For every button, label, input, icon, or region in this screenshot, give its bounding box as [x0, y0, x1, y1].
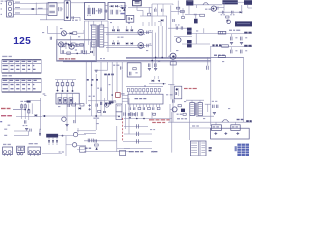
- wire cap bank v: [124, 104, 126, 129]
- label B rail right: [214, 55, 225, 56]
- magamp top wire: [55, 79, 76, 81]
- capacitor C41: [175, 24, 179, 29]
- connector blk1 dark: [222, 0, 237, 4]
- wire bm v1: [116, 126, 118, 152]
- wire right h3: [218, 11, 240, 13]
- wire rm v1: [170, 26, 172, 52]
- wire center h0: [124, 118, 172, 120]
- package TO220 Q12: [28, 143, 41, 156]
- capacitor C31: [221, 11, 225, 16]
- wire right h2: [185, 5, 200, 15]
- base drive box: [126, 15, 134, 22]
- diode DR10 stud: [138, 43, 144, 49]
- capacitor C52b: [240, 50, 247, 54]
- connector blk3 dark: [235, 21, 252, 26]
- wire T1 sec taps: [104, 28, 108, 46]
- label rail br end: [246, 120, 252, 122]
- magamp r4: [71, 80, 74, 92]
- bus rail upper: [126, 56, 244, 58]
- wire filter v1: [35, 3, 37, 15]
- ground s1: [65, 125, 68, 127]
- bus caps group: [148, 63, 157, 70]
- label sprinkle 5: [78, 36, 80, 37]
- inductor between boxes: [104, 10, 108, 13]
- wire down right: [248, 5, 252, 8]
- wire right v long2: [243, 57, 245, 122]
- wire t2 right: [205, 104, 211, 112]
- capacitor C51b: [240, 37, 247, 45]
- diode DR7: [117, 42, 119, 45]
- sense plus3: [236, 132, 239, 135]
- label sprinkle 8: [176, 50, 178, 51]
- diode DR9: [131, 42, 133, 45]
- arrow down 1: [48, 140, 50, 145]
- transformer section box: [84, 21, 108, 52]
- diode pair above IC: [149, 76, 166, 85]
- label out1: [229, 30, 240, 31]
- wire br v2: [121, 62, 123, 70]
- wire drv v2: [56, 26, 58, 45]
- inductor L1: [218, 31, 226, 34]
- wire drv out1: [77, 30, 84, 33]
- connector blk2 dark: [244, 0, 252, 5]
- wire net top mid 3: [152, 3, 173, 5]
- label sprinkle 16: [203, 118, 205, 119]
- label opto red: [184, 88, 197, 89]
- label near t2: [192, 125, 199, 126]
- resistor R21: [148, 7, 151, 15]
- diode D6: [68, 43, 70, 45]
- harness v1: [85, 62, 87, 104]
- dual diode pack D42: [186, 40, 193, 47]
- arrow down 2: [52, 140, 54, 145]
- capacitor C22: [162, 9, 163, 12]
- inductor L2: [222, 45, 229, 47]
- rail +12V double: [106, 32, 152, 34]
- capacitor C8: [111, 10, 113, 15]
- svg-text:125: 125: [13, 36, 31, 47]
- bridge rectifier box: [85, 3, 106, 20]
- main HV rail: [173, 4, 222, 5]
- lamp circle: [62, 117, 66, 121]
- harness beads: [87, 79, 98, 81]
- component Q9 parts: [177, 109, 187, 116]
- IC pin stubs bottom: [130, 104, 160, 107]
- table A row1 text: [3, 65, 35, 66]
- resistor R33: [200, 14, 205, 16]
- wire right top v1: [170, 5, 172, 26]
- wire opto h: [168, 84, 174, 86]
- comparator B: [66, 143, 86, 147]
- resistor R34: [182, 17, 185, 19]
- parts rail2: [147, 43, 151, 47]
- IC pin stubs top: [128, 92, 159, 94]
- parts rail1: [147, 30, 151, 34]
- label sprinkle 11: [166, 94, 168, 95]
- resistor R bleed: [96, 8, 100, 14]
- arrow down bl: [39, 129, 41, 135]
- plus mark a: [88, 104, 91, 107]
- table B header text: [3, 80, 37, 81]
- magamp r2: [61, 80, 64, 92]
- package TO220 Q10: [3, 144, 13, 156]
- resistor Rm1: [98, 110, 101, 112]
- relay box a: [116, 104, 122, 112]
- resistor row above IC: [127, 88, 160, 91]
- capacitor C33: [173, 19, 174, 22]
- ground sym br: [95, 70, 98, 72]
- harness v6: [111, 62, 113, 104]
- heatsink Q2 dark block: [186, 0, 193, 5]
- comparator A: [58, 128, 86, 137]
- parts under HV rail: [197, 5, 218, 10]
- diode DR8: [126, 42, 128, 45]
- wire net mid v: [166, 16, 168, 30]
- table B title: [2, 75, 12, 76]
- wire rail verticals: [152, 26, 166, 68]
- wire rm v2: [195, 33, 197, 44]
- standby opamp U2: [69, 44, 74, 49]
- box bl right: [77, 147, 86, 152]
- wire right top v2: [177, 1, 179, 15]
- rail out2: [210, 46, 252, 48]
- thermistor NTC: [101, 9, 102, 13]
- diode D5: [70, 32, 72, 34]
- wire br h1: [96, 69, 107, 71]
- wire drv h2: [57, 44, 59, 46]
- cluster top wire: [88, 100, 116, 102]
- bus rail upper2: [126, 58, 211, 60]
- sense plus1: [214, 132, 217, 135]
- wire bl v66: [65, 136, 67, 156]
- wire bmc h: [124, 148, 152, 150]
- coil right rail: [218, 55, 225, 57]
- transformer T2 a: [190, 103, 195, 116]
- harness v4: [100, 62, 102, 116]
- capacitor Cbm1: [88, 139, 90, 143]
- common-mode choke T0: [64, 1, 70, 21]
- standby parts c: [62, 50, 70, 54]
- label under q9: [177, 118, 187, 119]
- wire drv out2: [75, 44, 84, 48]
- label sprinkle 4: [60, 28, 62, 29]
- marks bl bottom: [42, 151, 64, 153]
- capacitor C61: [207, 57, 209, 69]
- capacitor C6 bulk: [93, 8, 95, 14]
- magamp box: [56, 93, 79, 104]
- standby caption maroon: [59, 58, 76, 59]
- optocoupler U3: [174, 86, 181, 99]
- label out2 end dark: [244, 45, 251, 47]
- label bm navy: [85, 148, 92, 149]
- harness marks mid: [89, 96, 95, 97]
- transformer T2 core: [196, 103, 197, 116]
- wire br v3: [216, 122, 236, 125]
- wire center h2: [124, 133, 152, 135]
- wire center h3: [123, 141, 152, 143]
- table A header text: [3, 61, 37, 62]
- left margin mark: [0, 121, 10, 126]
- wire pson1: [13, 109, 25, 111]
- resistor Rs2: [80, 104, 84, 106]
- wire opto v: [170, 84, 172, 99]
- standby extra parts: [62, 43, 84, 54]
- wire right v long1: [210, 47, 212, 126]
- label bl a: [4, 129, 7, 130]
- magamp r3: [66, 80, 69, 92]
- label sprinkle 6: [100, 58, 105, 59]
- wire bm corner: [117, 149, 130, 156]
- harness text dark: [105, 103, 111, 105]
- wire right v3: [182, 8, 184, 16]
- wire q8 down: [172, 59, 174, 122]
- coil bump rail br: [222, 120, 229, 122]
- transformer T1 primary: [92, 25, 97, 47]
- IC bottom parts row: [129, 107, 160, 110]
- table B row2 text: [3, 88, 36, 89]
- wire net top mid 1: [128, 6, 152, 8]
- IC lower parts 2: [128, 113, 155, 119]
- arrow down 3: [56, 140, 58, 145]
- wire pson2: [16, 115, 42, 117]
- wire N line: [13, 7, 48, 9]
- package TO92 Q11: [17, 146, 25, 155]
- capacitor bl: [30, 129, 31, 132]
- transistor Q6 circle: [59, 42, 64, 47]
- standby parts a: [76, 43, 83, 46]
- table A title: [2, 56, 12, 57]
- resistor R91: [178, 105, 181, 107]
- wire h right mid: [186, 56, 211, 58]
- wire from heatsink: [137, 6, 143, 11]
- transistor Q4 circle: [211, 6, 216, 11]
- capacitor Cm1: [96, 104, 97, 107]
- transistor Q5 circle: [61, 31, 66, 36]
- wire t2 h2: [196, 115, 214, 117]
- fuse F1: [32, 8, 35, 10]
- component bm cluster: [95, 139, 99, 149]
- sense box: [211, 128, 250, 139]
- label rail1: [117, 37, 123, 38]
- coil bump HV rail: [203, 3, 209, 5]
- label sprinkle 19: [42, 32, 44, 33]
- wire net mid h: [140, 15, 167, 17]
- heatsink Q1 dark block: [133, 0, 142, 5]
- wire net top mid 2: [151, 4, 153, 26]
- resistor R32: [180, 11, 184, 13]
- diode D31: [240, 5, 242, 13]
- label 5VSB red: [1, 115, 12, 116]
- harness v7: [116, 62, 118, 92]
- wire rail stub verticals: [113, 26, 131, 44]
- diode DR2: [117, 29, 119, 32]
- label sprinkle 10: [144, 85, 146, 86]
- snubber block: [46, 134, 58, 140]
- transformer T1 core: [97, 25, 98, 47]
- label sprinkle 7: [158, 61, 160, 62]
- capacitor Cs2: [74, 120, 75, 123]
- label sprinkle 1: [90, 25, 95, 26]
- page header marks: [1, 1, 7, 2]
- wire rm h4: [192, 32, 210, 34]
- standby parts d: [74, 47, 92, 55]
- capacitor Cs1: [68, 104, 69, 107]
- label rail br: [237, 119, 244, 120]
- wire bm h3: [84, 151, 130, 153]
- wire rm v3: [203, 28, 205, 33]
- line filter box FL1: [48, 3, 57, 16]
- wire rm h1: [168, 27, 187, 29]
- wire pson3: [42, 115, 120, 117]
- transistor Q8 circle: [168, 53, 176, 59]
- table A frame: [2, 60, 42, 73]
- wire drv link: [64, 33, 70, 44]
- capacitor Cbm2: [92, 139, 94, 143]
- capacitor CX1: [58, 7, 63, 11]
- wire stubs to rails: [143, 22, 161, 26]
- standby box outline: [57, 40, 97, 62]
- section parts v1: [66, 102, 68, 131]
- label sprinkle 3: [146, 50, 148, 51]
- transistor Q7 circle: [176, 38, 181, 43]
- caps above red area: [130, 112, 142, 116]
- table B row1 text: [3, 84, 35, 85]
- label C1: [38, 8, 43, 9]
- IC left stubs: [122, 96, 128, 102]
- wire center v2: [171, 112, 173, 153]
- label out2 dark: [212, 44, 221, 46]
- wire right h1: [171, 11, 184, 13]
- standby parts e: [60, 42, 94, 56]
- resistor R5: [73, 32, 77, 35]
- relay box b: [116, 112, 122, 120]
- label Q1: [120, 13, 124, 15]
- capacitor Cc3: [137, 139, 139, 143]
- red caption line2: [152, 122, 165, 123]
- resistor Rs1: [72, 104, 76, 106]
- component cluster top right: [226, 16, 231, 24]
- capacitor Cc2: [137, 132, 139, 136]
- wire drv v3: [69, 36, 71, 44]
- IC feed rail: [126, 86, 163, 88]
- section parts v2: [75, 102, 77, 120]
- capacitor CY1: [72, 16, 78, 21]
- diode D1: [109, 5, 113, 7]
- legend marks left: [209, 147, 212, 151]
- red caption line1: [149, 119, 170, 120]
- label sprinkle 12: [184, 101, 186, 102]
- capacitor C5 bulk: [87, 5, 91, 16]
- diode DR5 stud: [138, 29, 144, 35]
- harness v8: [121, 70, 123, 104]
- bus component box: [127, 63, 141, 77]
- label sprinkle 2: [110, 22, 112, 23]
- connector J1 AC input: [1, 1, 14, 17]
- harness v3: [95, 74, 97, 130]
- wire q9 v2: [189, 104, 191, 140]
- diode Ds1: [79, 107, 81, 109]
- label out1 end dark: [244, 32, 251, 34]
- wire section h2: [77, 130, 96, 132]
- standby parts b: [60, 42, 69, 53]
- resistor box br2: [231, 125, 240, 131]
- doubler box: [108, 3, 125, 20]
- transistor Qm circle: [105, 103, 109, 107]
- wire drv h1: [48, 33, 62, 35]
- label cluster m: [93, 118, 99, 119]
- capacitor C32: [230, 11, 234, 16]
- table A row2 text: [3, 69, 36, 70]
- label br1: [113, 65, 119, 66]
- rail bottom right: [190, 121, 252, 123]
- diode DR6: [112, 42, 114, 45]
- bus rail lower: [57, 60, 211, 62]
- wire bm h1: [84, 133, 96, 135]
- label bmc navy: [129, 151, 158, 153]
- wire rm h3: [182, 43, 210, 45]
- harness v2: [91, 62, 93, 116]
- capacitor C52: [230, 47, 237, 53]
- wire filter bottom: [40, 19, 64, 21]
- wire h 128: [190, 127, 211, 129]
- resistor box br1: [211, 125, 221, 131]
- wire choke to rectifier: [71, 3, 85, 21]
- wire blk link: [238, 1, 244, 3]
- wire br v1: [107, 62, 109, 70]
- red component box: [116, 93, 125, 98]
- wire L line: [13, 2, 64, 4]
- wire filter v2: [46, 3, 48, 20]
- pson cluster: [13, 98, 41, 131]
- capacitor Cc1: [137, 124, 139, 128]
- rail +5V double: [106, 46, 152, 48]
- wire q9 v: [169, 104, 171, 122]
- harness dots: [91, 84, 113, 117]
- capacitor Cdrv: [50, 37, 51, 40]
- resistor R6: [71, 43, 75, 46]
- capacitor C21: [155, 7, 156, 11]
- PWM IC U1 TL494: [128, 94, 163, 104]
- wire t2 top: [186, 100, 204, 103]
- wire bl h: [14, 131, 29, 136]
- wire q9 h: [168, 121, 190, 123]
- wire cap bank v2: [128, 98, 130, 134]
- diode DR3: [126, 29, 128, 32]
- blue grid table: [235, 144, 249, 156]
- diode D21: [158, 19, 163, 21]
- label sprinkle 14: [97, 123, 99, 124]
- opto parts below: [170, 94, 174, 103]
- rail out1: [210, 32, 252, 34]
- transformer T1 secondary: [99, 25, 104, 47]
- wire stub: [142, 10, 144, 16]
- capacitor C7: [116, 10, 121, 15]
- wire box verticals: [158, 4, 164, 16]
- q8 base box: [170, 62, 176, 65]
- resistor R31: [176, 7, 179, 9]
- capacitor Cm2: [100, 102, 101, 105]
- dark marks m: [109, 101, 116, 103]
- label sprinkle 18: [128, 23, 130, 24]
- harness v5: [107, 74, 109, 100]
- wire center h1: [124, 126, 148, 128]
- diode Dm1: [103, 111, 105, 113]
- transformer T2 b: [198, 103, 202, 116]
- diode D2: [115, 5, 120, 7]
- dual diode pack D41: [186, 28, 193, 35]
- label br2: [104, 74, 114, 76]
- capacitor C42: [181, 26, 183, 29]
